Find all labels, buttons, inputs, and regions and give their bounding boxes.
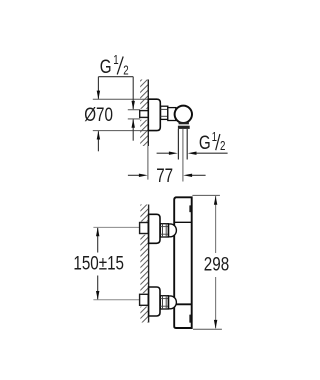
svg-text:1: 1 (212, 131, 217, 144)
svg-text:77: 77 (156, 165, 173, 187)
svg-text:150±15: 150±15 (73, 252, 124, 274)
svg-text:2: 2 (220, 140, 225, 153)
svg-text:1: 1 (113, 54, 118, 67)
svg-text:G: G (100, 56, 112, 78)
svg-text:G: G (199, 132, 211, 154)
svg-text:Ø70: Ø70 (84, 103, 113, 125)
svg-text:2: 2 (123, 64, 128, 77)
svg-text:298: 298 (204, 253, 229, 275)
